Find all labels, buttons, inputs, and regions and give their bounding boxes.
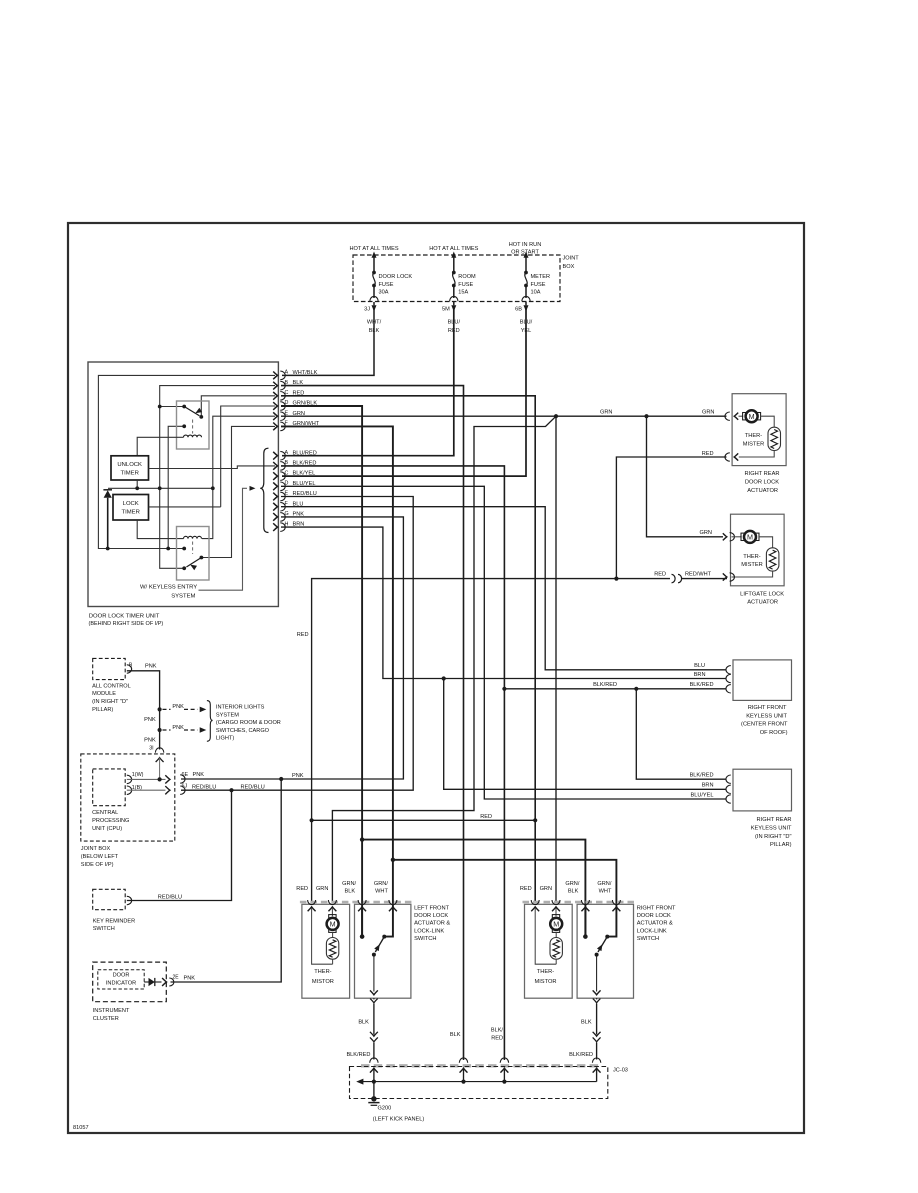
svg-text:C: C [285,470,289,476]
svg-text:M: M [330,919,336,928]
svg-text:SWITCH: SWITCH [93,926,115,932]
wire unlock timer output to pin B of second connector [149,466,276,469]
svg-text:BLK/: BLK/ [491,1028,504,1034]
svg-text:METER: METER [531,274,551,280]
svg-text:GRN: GRN [700,530,712,536]
svg-text:BLK: BLK [345,888,356,894]
relay K1 switch contacts [182,405,186,409]
wire RED net from pin C to right front actuator [281,396,535,901]
internal wire relay 1 upper contact feed [160,406,185,408]
svg-text:CENTRAL: CENTRAL [92,810,118,816]
svg-text:M: M [553,919,559,928]
svg-text:10A: 10A [531,290,541,296]
wire unlock timer bottom to diode row [136,480,138,488]
wire PNK net from pin G of second connector to CPU and door indicator [181,517,403,779]
svg-text:UNLOCK: UNLOCK [117,462,142,468]
svg-text:GRN: GRN [316,886,328,892]
svg-text:MISTOR: MISTOR [312,979,334,985]
svg-text:GRN/: GRN/ [597,881,611,887]
pin A BLU/RED connector [273,452,277,460]
svg-text:SIDE OF I/P): SIDE OF I/P) [81,862,114,868]
wire BLU net from pin F of second connector to right front keyless unit [281,507,726,670]
pin E RED/BLU connector [273,493,277,501]
pin A WHT/BLK connector [273,372,277,380]
wire lock timer bottom to relay K2 coil [137,520,183,539]
svg-text:B: B [129,662,133,668]
ground bus internal wire [360,1081,597,1083]
pin E GRN connector [273,412,277,420]
svg-text:D: D [285,481,289,487]
wire BRN net from pin H of second connector to keyless units [281,527,726,678]
right rear keyless unit box [733,769,792,811]
svg-text:PNK: PNK [292,773,304,779]
svg-text:LOCK-LINK: LOCK-LINK [414,928,444,934]
BRN drop to right rear keyless unit [444,679,726,790]
BLK/RED row to right front keyless unit [504,688,725,690]
GRN jog to left front actuator [332,416,556,901]
svg-text:RED: RED [654,572,666,578]
internal wire pin C to relay 1 common [201,396,275,417]
svg-text:KEY REMINDER: KEY REMINDER [93,918,135,924]
key reminder switch connector [127,896,132,904]
ground G200 [373,1082,375,1098]
svg-text:LIFTGATE LOCK: LIFTGATE LOCK [740,591,784,597]
JC-03 dashed box [350,1067,608,1099]
CPU pin 1(B) [127,786,132,794]
key reminder switch box [93,889,126,909]
wire BLK net from pin B to ground bus [281,386,464,1060]
relay K2 switch lever [186,558,201,568]
right front keyless connectors [726,666,731,674]
svg-text:E: E [285,410,289,416]
svg-text:THER-: THER- [537,969,554,975]
wire GRN/BLK net from pin D to front actuator switches [281,406,362,937]
wire GRN/WHT net from pin F to front actuator switches [281,426,393,936]
svg-text:RED/WHT: RED/WHT [685,572,712,578]
GRN riser to right front actuator [555,416,557,901]
left actuator output wire BLK to ground bus [373,998,375,999]
svg-text:LIGHT): LIGHT) [216,736,234,742]
joint connector JC-03 gray bus [361,1064,599,1067]
connector 6J [180,786,185,794]
svg-text:3I: 3I [149,746,154,752]
svg-text:DOOR LOCK: DOOR LOCK [637,913,671,919]
svg-text:RED: RED [491,1036,503,1042]
right actuator motor M [555,908,557,916]
pin D BLU/YEL connector [273,482,277,490]
svg-text:BLK/RED: BLK/RED [593,682,617,688]
svg-text:G: G [285,511,289,517]
svg-text:MISTER: MISTER [741,562,763,568]
svg-text:6E: 6E [182,772,189,778]
relay K2 coil [184,536,202,538]
svg-text:BLU: BLU [694,663,705,669]
svg-text:PNK: PNK [145,664,157,670]
liftgate actuator motor M [732,536,742,538]
svg-text:MODULE: MODULE [92,691,116,697]
svg-text:PNK: PNK [144,737,156,743]
svg-text:BLK/RED: BLK/RED [690,773,714,779]
svg-text:INSTRUMENT: INSTRUMENT [93,1008,130,1014]
right actuator output wire BLK to ground bus [596,998,598,999]
wire WHT/BLK from door lock fuse to pin A [282,309,374,376]
svg-text:(BELOW LEFT: (BELOW LEFT [81,854,119,860]
svg-text:(IN RIGHT "D": (IN RIGHT "D" [755,834,791,840]
right rear actuator motor M [739,415,744,417]
interior lights brace [207,701,213,742]
right front actuator switch box [577,904,633,998]
internal wire pin B ground net [160,386,275,569]
connector 6E [180,775,185,783]
wire PNK from door indicator to CPU row [171,779,282,982]
right rear actuator GRN connector [725,412,730,420]
wire RED branch to right rear door lock actuator [616,457,726,579]
left front actuator switch box [355,904,411,998]
svg-text:RED/BLU: RED/BLU [158,895,182,901]
GRN branch to liftgate lock actuator [647,416,724,537]
svg-text:WHT: WHT [599,888,612,894]
svg-text:RED: RED [702,451,714,457]
GRN/WHT branch to right front switch [393,860,617,937]
svg-text:BLK/RED: BLK/RED [569,1052,593,1058]
internal wire relay 1 lower contact to relay 2 feed row [168,426,184,548]
right actuator wire entry connectors [531,900,539,905]
svg-text:SYSTEM: SYSTEM [216,712,239,718]
svg-text:PNK: PNK [144,717,156,723]
pin B of all control module [127,665,132,673]
pin H BRN connector [273,523,277,531]
svg-text:GRN: GRN [540,886,552,892]
svg-text:BRN: BRN [702,783,714,789]
svg-text:FUSE: FUSE [458,282,473,288]
svg-text:G200: G200 [378,1106,392,1112]
svg-text:ACTUATOR: ACTUATOR [747,600,778,606]
GRN/BLK branch to right front switch [362,840,585,937]
wire GRN net from pin E to right rear actuator [281,415,727,417]
svg-text:THER-: THER- [745,433,762,439]
svg-text:RED: RED [480,814,492,820]
svg-text:THER-: THER- [743,554,760,560]
svg-text:LOCK-LINK: LOCK-LINK [637,928,667,934]
svg-text:GRN/: GRN/ [374,881,388,887]
svg-text:PNK: PNK [172,725,184,731]
svg-text:GRN: GRN [702,409,714,415]
svg-text:GRN/: GRN/ [342,881,356,887]
right rear actuator RED connector [725,453,730,461]
wire BLK/RED net from pin B of second connector to ground bus [281,466,504,1060]
joint box (below left side of I/P) dashed box [81,754,175,841]
svg-text:DOOR: DOOR [113,972,130,978]
wire relay K1 coil to unlock timer [137,437,183,456]
internal wire pin F to relay 2 contact [201,426,275,557]
svg-text:BLK: BLK [581,1020,592,1026]
svg-text:BLK/YEL: BLK/YEL [293,471,316,477]
pin C RED connector [273,392,277,400]
connector on door indicator wire [162,978,166,986]
svg-text:RED: RED [296,886,308,892]
pin F BLU connector [273,503,277,511]
svg-text:ACTUATOR: ACTUATOR [747,488,778,494]
wire to keyless entry system [199,488,248,590]
svg-text:UNIT (CPU): UNIT (CPU) [92,826,122,832]
instrument cluster box [93,962,167,1002]
svg-text:(CENTER FRONT: (CENTER FRONT [741,722,788,728]
liftgate lock actuator box [731,514,785,586]
svg-text:ACTUATOR &: ACTUATOR & [637,921,673,927]
svg-text:M: M [747,532,753,541]
internal wire pin D to lock timer row [221,406,275,507]
svg-text:DOOR LOCK: DOOR LOCK [379,274,413,280]
svg-text:MISTOR: MISTOR [534,979,556,985]
pin D GRN/BLK connector [273,402,277,410]
svg-text:INTERIOR LIGHTS: INTERIOR LIGHTS [216,705,265,711]
unlock timer box [111,456,149,480]
svg-text:GRN/: GRN/ [565,881,579,887]
right front keyless unit box [733,660,792,701]
left actuator thermistor [332,932,334,937]
left lock-link switch [361,908,363,937]
svg-text:RIGHT FRONT: RIGHT FRONT [637,906,676,912]
svg-text:BRN: BRN [694,672,706,678]
internal wire pin A to relay feed [98,375,275,548]
liftgate actuator GRN connector [723,533,727,540]
svg-text:JOINT: JOINT [563,256,580,262]
wire RED/BLU net from pin E of second connector to CPU [181,497,413,791]
svg-text:BOX: BOX [563,264,575,270]
internal wire pin E to relay coils common [202,416,275,538]
relay K1 coil [184,435,202,437]
svg-text:DOOR LOCK: DOOR LOCK [745,480,779,486]
brace for keyless-connected pins [260,448,268,532]
svg-text:(IN RIGHT "D": (IN RIGHT "D" [92,699,128,705]
svg-text:BLU/RED: BLU/RED [293,450,317,456]
svg-text:RIGHT REAR: RIGHT REAR [745,471,780,477]
svg-text:PNK: PNK [193,772,205,778]
door indicator box [98,970,144,989]
inline connector on liftgate RED wire [616,578,670,580]
left actuator wire entry connectors [308,900,316,905]
svg-text:DOOR LOCK: DOOR LOCK [414,913,448,919]
svg-text:MISTER: MISTER [743,442,765,448]
svg-text:81057: 81057 [73,1125,89,1131]
door lock timer unit box [88,362,278,607]
svg-text:(CARGO ROOM & DOOR: (CARGO ROOM & DOOR [216,720,281,726]
svg-text:E: E [285,491,289,497]
svg-text:HOT AT ALL TIMES: HOT AT ALL TIMES [349,246,398,252]
joint box (fuse box, dashed) [353,255,560,302]
wire CPU pin 1(B) to connector 6J [127,789,166,791]
relay K2 switch contacts [182,547,186,551]
svg-text:RED/BLU: RED/BLU [241,784,265,790]
svg-text:OF ROOF): OF ROOF) [760,730,788,736]
svg-text:JOINT BOX: JOINT BOX [81,846,111,852]
svg-text:THER-: THER- [314,969,331,975]
lock timer box [113,495,149,521]
svg-text:BLK: BLK [568,888,579,894]
wire RED/BLU from key reminder switch [127,790,232,900]
svg-text:CLUSTER: CLUSTER [93,1016,119,1022]
svg-text:(LEFT KICK PANEL): (LEFT KICK PANEL) [373,1116,425,1122]
right rear actuator thermistor [761,416,775,427]
relay K1 plunger dashed link [192,420,194,434]
svg-text:SYSTEM: SYSTEM [171,593,195,599]
bus entry connectors through JC-03 [370,1058,378,1063]
svg-text:PILLAR): PILLAR) [770,842,792,848]
svg-text:ACTUATOR &: ACTUATOR & [414,921,450,927]
pin C BLK/YEL connector [273,472,277,480]
svg-text:KEYLESS UNIT: KEYLESS UNIT [751,825,792,831]
svg-text:LEFT FRONT: LEFT FRONT [414,906,449,912]
right lock-link switch [584,908,586,937]
liftgate actuator thermistor [759,537,773,548]
svg-text:RED: RED [297,632,309,638]
left actuator motor M [331,908,333,916]
wire CPU pin 1(W) to connector 6E [127,778,166,780]
svg-text:5M: 5M [442,307,450,313]
left front door lock actuator assembly dashed top [300,901,413,904]
svg-text:TIMER: TIMER [121,471,139,477]
left actuator RED internal wire [312,908,333,964]
svg-text:WHT/BLK: WHT/BLK [293,370,318,376]
svg-text:RIGHT REAR: RIGHT REAR [757,817,792,823]
svg-text:SWITCH: SWITCH [637,936,659,942]
svg-text:HOT IN RUN: HOT IN RUN [509,242,542,248]
left front actuator motor box [302,904,350,998]
svg-text:JC-03: JC-03 [613,1068,628,1074]
CPU pin 1(W) [127,775,132,783]
svg-text:HOT AT ALL TIMES: HOT AT ALL TIMES [429,246,478,252]
wire lock timer output row [149,506,221,508]
central processing unit box [93,769,126,806]
svg-text:BLK/RED: BLK/RED [346,1052,370,1058]
pin G PNK connector [273,513,277,521]
wire BLK/YEL from meter fuse to pin C of second connector [282,309,526,477]
svg-text:RED: RED [520,886,532,892]
BLK/RED drop to right rear keyless unit [636,689,725,779]
door indicator diode symbol [144,981,148,983]
svg-text:15A: 15A [458,290,468,296]
svg-text:FUSE: FUSE [379,282,394,288]
svg-text:30A: 30A [379,290,389,296]
svg-text:PNK: PNK [172,704,184,710]
wire BLU/YEL net from pin D of second connector to right rear keyless unit [281,486,726,799]
svg-text:M: M [749,412,755,421]
relay K2 (lock relay) [177,527,210,581]
dashed arrow to interior lights system lower [163,729,171,731]
svg-text:2E: 2E [173,975,180,981]
svg-text:PROCESSING: PROCESSING [92,818,129,824]
svg-text:WHT: WHT [375,888,388,894]
all control module box [93,658,126,679]
svg-text:DOOR LOCK TIMER UNIT: DOOR LOCK TIMER UNIT [89,614,160,620]
svg-text:6J: 6J [182,783,188,789]
svg-text:6B: 6B [515,307,522,313]
svg-text:FUSE: FUSE [531,282,546,288]
svg-text:BLK/RED: BLK/RED [690,682,714,688]
wire PNK from all control module [127,671,160,750]
svg-text:BLK: BLK [358,1020,369,1026]
svg-text:RIGHT FRONT: RIGHT FRONT [748,705,787,711]
right rear keyless connectors [726,775,731,783]
svg-text:3J: 3J [364,307,370,313]
svg-text:A: A [285,450,289,456]
right front actuator motor box [525,904,573,998]
svg-text:RED/BLU: RED/BLU [192,784,216,790]
svg-text:BLK: BLK [450,1032,461,1038]
wire BLU/RED from room fuse to pin A of second connector [282,309,454,456]
svg-text:1(W): 1(W) [132,772,144,778]
svg-text:INDICATOR: INDICATOR [106,981,136,987]
svg-text:(BEHIND RIGHT SIDE OF I/P): (BEHIND RIGHT SIDE OF I/P) [89,621,164,627]
svg-text:ALL CONTROL: ALL CONTROL [92,683,131,689]
RED cross link row [312,819,536,821]
pin B BLK/RED connector [273,462,277,470]
right rear door lock actuator box [732,394,786,466]
svg-text:SWITCH: SWITCH [414,936,436,942]
border frame [68,223,804,1133]
relay K1 (unlock relay) [177,401,210,449]
right actuator thermistor [555,932,557,937]
svg-text:TIMER: TIMER [122,510,140,516]
svg-text:GRN: GRN [600,409,612,415]
diode D1 [103,489,112,491]
right actuator RED internal wire [535,908,556,964]
svg-text:W/ KEYLESS ENTRY: W/ KEYLESS ENTRY [140,585,197,591]
liftgate actuator RED/WHT connector [723,573,727,580]
svg-text:H: H [285,521,289,527]
pin F GRN/WHT connector [273,423,277,431]
right front door lock actuator assembly dashed top [523,901,636,904]
diode and timer junction row [108,487,213,489]
svg-text:LOCK: LOCK [123,501,139,507]
svg-text:A: A [285,370,289,376]
svg-text:PILLAR): PILLAR) [92,707,113,713]
relay K1 switch lever [184,407,199,416]
svg-text:SWITCHES, CARGO: SWITCHES, CARGO [216,728,270,734]
pin B BLK connector [273,382,277,390]
svg-text:KEYLESS UNIT: KEYLESS UNIT [746,713,787,719]
svg-text:BLU/YEL: BLU/YEL [690,792,713,798]
svg-text:PNK: PNK [184,975,196,981]
wire RED riser to left actuator and rear feed [312,579,617,901]
relay K2 plunger dashed link [192,542,194,555]
svg-text:ROOM: ROOM [458,274,476,280]
dashed arrow to interior lights system upper [163,708,171,710]
